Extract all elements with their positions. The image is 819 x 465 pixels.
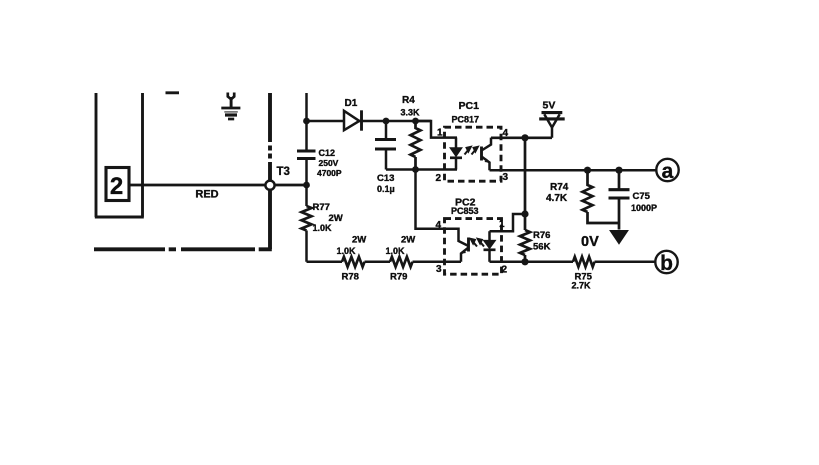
wire: main vertical with C12/R77	[305, 93, 308, 262]
svg-text:2.7K: 2.7K	[572, 281, 592, 291]
optocoupler PC2 dashed box	[445, 219, 502, 275]
wire: 5V rail down to R76	[524, 138, 527, 230]
svg-text:2W: 2W	[401, 235, 415, 246]
junction dot (C75 top)	[615, 167, 622, 174]
junction dot (R4 top)	[412, 118, 419, 125]
wire RED: box 2 to node T3	[129, 184, 307, 187]
capacitor C75	[618, 170, 621, 229]
capacitor C13	[385, 121, 388, 170]
junction dot (PC2 pin1 / R76 top)	[521, 210, 528, 217]
stub segment (cut off element)	[166, 91, 180, 94]
svg-text:RED: RED	[195, 189, 218, 201]
capacitor C12	[297, 151, 316, 159]
svg-text:D1: D1	[345, 98, 358, 109]
svg-text:C75: C75	[633, 191, 651, 202]
resistor R74	[583, 170, 620, 223]
svg-text:a: a	[662, 160, 674, 183]
wire: to PC2 pin 4	[416, 170, 459, 239]
wire: PC2 pin 1 to 5V rail	[490, 214, 526, 231]
svg-text:1: 1	[437, 128, 443, 139]
svg-text:4.7K: 4.7K	[546, 193, 568, 204]
wire: R4 top to PC1 pin 1	[416, 121, 458, 138]
junction dot (C13 top)	[383, 118, 390, 125]
5V supply symbol	[544, 114, 559, 138]
svg-text:2W: 2W	[352, 235, 366, 246]
node T3	[265, 181, 274, 190]
svg-text:PC1: PC1	[459, 100, 480, 112]
svg-text:PC853: PC853	[451, 206, 479, 216]
svg-text:3: 3	[436, 264, 442, 275]
resistor R4	[411, 121, 421, 170]
0V ground arrow	[610, 231, 628, 244]
thick bus wire bottom (dashed)	[94, 247, 272, 251]
resistor R77	[302, 206, 312, 231]
svg-text:1.0K: 1.0K	[337, 246, 357, 256]
svg-text:PC817: PC817	[452, 115, 480, 125]
svg-text:2: 2	[110, 173, 123, 200]
wire: PC1 pin 3 to terminal a	[490, 169, 657, 172]
resistor R79	[390, 257, 413, 267]
junction dot (R76 bottom)	[521, 258, 528, 265]
svg-text:C12: C12	[319, 148, 336, 158]
svg-text:T3: T3	[277, 166, 290, 178]
svg-text:56K: 56K	[533, 242, 551, 253]
svg-text:250V: 250V	[319, 158, 339, 168]
svg-text:1.0K: 1.0K	[313, 223, 333, 233]
resistor R75	[573, 257, 595, 267]
terminal b	[655, 251, 677, 273]
svg-text:1.0K: 1.0K	[386, 246, 406, 256]
PC1 phototransistor	[480, 147, 483, 161]
svg-text:3: 3	[503, 172, 509, 183]
svg-text:4700P: 4700P	[317, 168, 342, 178]
svg-text:0.1µ: 0.1µ	[377, 184, 395, 194]
svg-text:R4: R4	[402, 95, 415, 106]
junction dot (5V rail)	[521, 134, 528, 141]
wire: C13 bottom to PC1 pin 2	[386, 168, 457, 171]
svg-text:R78: R78	[342, 272, 359, 283]
junction dot (R74 top)	[584, 167, 591, 174]
PC2 light arrows	[471, 239, 484, 247]
svg-text:R77: R77	[313, 202, 330, 213]
resistor R78	[342, 257, 365, 267]
junction dot (RED wire / vertical)	[303, 182, 310, 189]
svg-text:1: 1	[499, 219, 505, 230]
diode D1	[344, 111, 359, 130]
PC2 LED	[488, 231, 491, 240]
terminal a	[656, 159, 678, 181]
wire: R77 bottom to PC2 pin 3	[307, 261, 462, 264]
PC1 light arrows	[465, 147, 478, 155]
svg-text:5V: 5V	[543, 100, 556, 112]
chassis ground symbol	[221, 93, 240, 120]
terminal box 2	[106, 168, 129, 201]
op-to PC1 dashed box	[445, 127, 502, 181]
wire: PC2 pin 2 to terminal b	[490, 261, 656, 264]
svg-text:R76: R76	[533, 230, 550, 241]
resistor R76	[520, 230, 530, 255]
wire: PC1 pin 4 to 5V	[491, 136, 552, 139]
junction dot (top wire / vertical)	[303, 118, 310, 125]
svg-text:2: 2	[436, 173, 442, 184]
transformer box (partial, cut off at top)	[95, 93, 144, 217]
svg-text:2: 2	[502, 265, 508, 276]
thick bus wire vertical (dashed)	[268, 93, 272, 249]
svg-text:C13: C13	[377, 173, 394, 184]
svg-text:3.3K: 3.3K	[401, 108, 421, 118]
junction dot (R4 bottom)	[412, 166, 419, 173]
PC1 LED	[455, 138, 458, 148]
svg-text:4: 4	[436, 220, 442, 231]
PC2 phototransistor	[467, 238, 470, 252]
svg-text:1000P: 1000P	[631, 203, 657, 213]
svg-text:R74: R74	[550, 182, 569, 193]
svg-text:0V: 0V	[581, 234, 599, 250]
svg-text:R79: R79	[390, 272, 407, 283]
wire: top rail	[307, 120, 432, 123]
svg-text:b: b	[660, 252, 673, 275]
